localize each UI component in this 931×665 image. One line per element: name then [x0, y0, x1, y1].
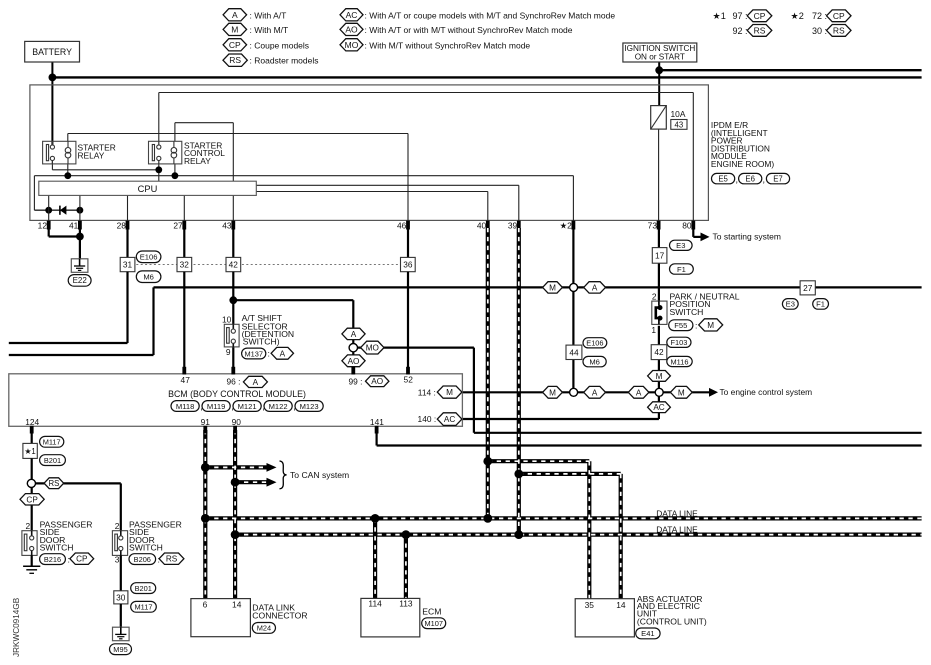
svg-text:E5: E5	[718, 174, 728, 183]
pin 39 stub	[517, 221, 521, 230]
node A/T selector branch	[229, 296, 237, 304]
relay STARTER CONTROL RELAY	[149, 141, 182, 164]
ECM box	[361, 598, 420, 637]
svg-text:CONNECTOR: CONNECTOR	[252, 610, 307, 620]
ground M95 symbol	[113, 627, 130, 641]
hexagon M above engine line	[648, 371, 671, 382]
wire CPU pin28 drop	[127, 195, 129, 220]
svg-text:27: 27	[173, 221, 183, 231]
wire M-line left segment	[9, 354, 154, 356]
CAN wire ABS35 column dash	[588, 461, 590, 599]
A/T shift selector detention switch	[224, 324, 239, 347]
svg-text:E22: E22	[73, 276, 88, 285]
svg-text:35: 35	[585, 600, 595, 610]
connector box 32	[177, 257, 192, 271]
svg-text:73: 73	[648, 221, 658, 231]
node CAN junction 40-dataline1	[483, 514, 492, 523]
svg-text:9: 9	[226, 347, 231, 357]
node CAN junction BCM91-arrow	[201, 463, 210, 472]
connector box 27 on y287	[800, 281, 815, 295]
hexagon M engine line 1	[543, 386, 563, 398]
BCM top pin ticks	[182, 367, 186, 375]
ABS actuator box	[575, 599, 634, 637]
svg-text:M6: M6	[589, 357, 600, 366]
svg-text:RS: RS	[166, 555, 178, 564]
svg-text:SWITCH): SWITCH)	[243, 336, 280, 346]
pin *2 stub	[572, 221, 576, 230]
node CAN junction ECM113	[402, 530, 411, 539]
svg-text:A: A	[636, 388, 642, 397]
wire CPU pin27 drop	[183, 195, 185, 220]
hexagon CP branch	[20, 494, 44, 505]
passenger side door switch 2	[112, 531, 127, 556]
svg-text:AC: AC	[653, 403, 664, 412]
connector E106 label right	[583, 338, 607, 348]
CAN arrow line 2 base	[235, 480, 267, 484]
svg-text:AO: AO	[348, 357, 360, 366]
svg-text:2: 2	[652, 292, 657, 302]
connector box 44	[566, 345, 582, 359]
svg-text::: :	[268, 349, 270, 359]
svg-text:A: A	[592, 388, 598, 397]
connector M107 label	[422, 618, 446, 629]
connector box 30	[114, 591, 128, 604]
svg-text:F1: F1	[816, 300, 825, 309]
svg-text:RS: RS	[833, 25, 845, 35]
connector M117 label	[40, 436, 64, 447]
wire pin73 to connector 17 and PNP switch	[658, 229, 660, 301]
CAN wire IPDM40 column dash	[487, 228, 489, 518]
svg-text:E41: E41	[641, 629, 655, 638]
wire pin41 to ground	[79, 229, 81, 259]
connector M95 label	[110, 644, 132, 655]
svg-text:14: 14	[616, 600, 626, 610]
wire connector 30 to ground M95	[120, 604, 122, 628]
svg-text:6: 6	[203, 599, 208, 609]
svg-text:M121: M121	[238, 402, 257, 411]
CAN arrow line 1 base	[205, 465, 267, 469]
connector M24 label	[252, 623, 275, 634]
wire pin43 chain to BCM 96	[232, 272, 234, 329]
svg-text:M119: M119	[207, 402, 225, 411]
legend hexagon CP	[223, 39, 247, 51]
svg-text:RS: RS	[229, 55, 241, 65]
connector F1 label below 27	[813, 299, 829, 310]
svg-text:,: ,	[763, 175, 766, 185]
CAN wire ABS14 column base	[619, 474, 623, 599]
harness dotted line	[128, 264, 408, 266]
svg-text:3: 3	[115, 555, 120, 565]
wire M/A line y287	[154, 286, 922, 288]
svg-text:M118: M118	[176, 402, 194, 411]
svg-text:114 :: 114 :	[418, 388, 436, 398]
CAN wire DATA LINE 1 base	[205, 516, 921, 520]
wire CPU pin12 drop	[48, 195, 50, 220]
svg-text:DATA LINE: DATA LINE	[656, 509, 698, 519]
node pin41 join	[76, 233, 84, 241]
svg-text:AC: AC	[346, 10, 358, 20]
wire diode line	[34, 209, 80, 211]
connector box 42 lower	[651, 345, 667, 360]
data link connector box	[191, 599, 251, 637]
pin 73 stub	[657, 221, 661, 230]
svg-text:72 :: 72 :	[812, 11, 827, 21]
CAN wire ECM114 column dash	[374, 518, 376, 598]
svg-text:To starting system: To starting system	[713, 231, 782, 241]
svg-text:E106: E106	[140, 253, 158, 262]
legend hexagon A	[223, 9, 247, 21]
legend hexagon MO	[340, 39, 363, 51]
wire circle to CP hexagon and door switch	[31, 488, 33, 531]
hexagon M on y287	[543, 282, 563, 293]
node CAN junction 90-dataline2	[231, 530, 240, 539]
wire pin star2 chain down	[572, 229, 574, 345]
CAN arrow line 1 dash	[205, 466, 267, 468]
wire PNP switch to BCM140 riser	[658, 326, 660, 419]
svg-text:M: M	[446, 388, 453, 397]
svg-text:92 :: 92 :	[732, 26, 747, 36]
CAN wire ABS35 column base	[587, 461, 591, 599]
legend hexagon M	[223, 23, 247, 35]
fuse box star1	[23, 443, 37, 458]
connector E7	[766, 173, 789, 183]
wire A to AO through circle	[352, 339, 354, 374]
arrow to engine control system	[709, 388, 718, 397]
wire pin28 to connector 31	[126, 229, 128, 257]
connector M117 label 2	[131, 601, 157, 612]
hexagon AO below circle	[342, 355, 365, 367]
svg-text:: Roadster models: : Roadster models	[250, 56, 319, 66]
node ignition-bus junction	[655, 66, 663, 74]
svg-text:ENGINE ROOM): ENGINE ROOM)	[711, 159, 774, 169]
node diode-pin12 junction	[45, 207, 52, 214]
arrow to starting system	[701, 233, 710, 242]
hexagon AC below engine line	[648, 402, 671, 413]
svg-text:: With A/T or with M/T without: : With A/T or with M/T without SynchroRe…	[365, 25, 573, 35]
BCM bottom pin ticks	[30, 426, 34, 434]
CAN wire ECM114 column base	[373, 518, 377, 598]
arrow to CAN system 2	[267, 478, 277, 487]
svg-text:91: 91	[201, 417, 211, 427]
CAN wire DATA LINE 2 dash	[235, 534, 922, 536]
CAN wire BCM91 column to DLC dash	[204, 430, 206, 599]
wire branch to A/AO hexagons	[233, 299, 353, 301]
svg-text:CP: CP	[754, 11, 766, 21]
svg-text:42: 42	[654, 347, 664, 357]
svg-text:★1: ★1	[713, 11, 726, 21]
svg-text:A: A	[351, 330, 357, 339]
CAN wire IPDM40 column base	[486, 228, 490, 518]
svg-text:CP: CP	[76, 555, 88, 564]
svg-text:SWITCH: SWITCH	[40, 543, 74, 553]
svg-text:41: 41	[69, 221, 79, 231]
svg-text:27: 27	[803, 283, 813, 293]
svg-text:E106: E106	[586, 339, 603, 348]
wire battery feed bus	[52, 76, 921, 78]
wire relay contact common line into CPU	[51, 160, 53, 169]
pin 12 stub	[47, 221, 51, 230]
node open circle A/MO/AO	[349, 344, 357, 352]
svg-text:M24: M24	[257, 624, 271, 633]
switch IGNITION SWITCH ON or START	[623, 43, 697, 62]
hexagon A for M137	[271, 347, 293, 359]
svg-text:MO: MO	[345, 40, 359, 50]
svg-text:E3: E3	[786, 300, 795, 309]
passenger side door switch 1	[22, 531, 37, 556]
legend hexagon RS	[223, 54, 247, 66]
wire pin27 chain to BCM 47	[183, 272, 185, 374]
node open circle PNP/engine-line	[655, 388, 663, 396]
hexagon M engine line 2	[670, 386, 692, 398]
svg-text:B201: B201	[44, 456, 61, 465]
CAN wire branch to ABS14 base	[519, 472, 621, 476]
svg-text:44: 44	[569, 347, 579, 357]
wire MO branch	[357, 347, 474, 349]
svg-text:M: M	[549, 283, 556, 292]
wire pin46 chain to BCM 52	[407, 272, 409, 374]
wire CPU to pin39	[256, 184, 519, 186]
wire battery drop	[51, 61, 53, 146]
svg-text:12: 12	[38, 221, 48, 231]
svg-text:30: 30	[116, 592, 126, 602]
legend hexagon AC	[340, 9, 363, 21]
svg-text:AC: AC	[444, 415, 455, 424]
wire CPU pin41 drop	[79, 195, 81, 220]
svg-text:97 :: 97 :	[732, 11, 747, 21]
CAN wire DATA LINE 2 base	[235, 532, 922, 536]
wire engine-control line y392	[462, 391, 709, 393]
connector B201 label 2	[131, 583, 156, 594]
BCM box	[9, 374, 463, 427]
connector E3 label	[670, 240, 693, 250]
svg-text:MO: MO	[366, 344, 379, 353]
svg-text:M122: M122	[269, 402, 288, 411]
svg-text:: With A/T: : With A/T	[250, 10, 287, 20]
svg-text:40: 40	[477, 221, 487, 231]
hexagon A on y287	[584, 282, 606, 293]
diode D1	[60, 206, 67, 215]
svg-text:A: A	[253, 378, 259, 387]
svg-text:★2: ★2	[560, 221, 573, 231]
node CAN junction ECM114	[371, 514, 380, 523]
connector M6 label	[136, 271, 161, 283]
svg-text:CP: CP	[26, 495, 38, 504]
svg-text:140 :: 140 :	[418, 414, 437, 424]
svg-text:1: 1	[651, 325, 656, 335]
svg-text:17: 17	[655, 250, 665, 260]
CAN wire IPDM39 column dash	[518, 228, 520, 535]
CAN wire DATA LINE 1 dash	[205, 517, 921, 519]
svg-text:124: 124	[25, 417, 39, 427]
svg-text:JRKWC0914GB: JRKWC0914GB	[12, 597, 21, 657]
pin 27 stub	[182, 221, 186, 230]
wire star1 to circle	[31, 458, 33, 480]
svg-text:B201: B201	[135, 584, 152, 593]
brace To CAN system	[280, 461, 287, 489]
svg-text:M123: M123	[300, 402, 319, 411]
svg-text:A: A	[280, 349, 286, 358]
svg-text:M117: M117	[135, 603, 153, 612]
svg-text:: With M/T without SynchroRev: : With M/T without SynchroRev Match mode	[365, 40, 531, 50]
svg-text:36: 36	[403, 260, 413, 270]
svg-text:43: 43	[675, 120, 684, 129]
pin 46 stub	[406, 221, 410, 230]
CAN wire BCM90 column to DLC dash	[234, 430, 236, 599]
svg-text:M6: M6	[143, 273, 154, 282]
svg-text:A: A	[232, 10, 238, 20]
connector box 31	[120, 257, 135, 271]
svg-text:CPU: CPU	[138, 184, 158, 194]
svg-text:32: 32	[180, 260, 190, 270]
svg-text:E3: E3	[676, 241, 685, 250]
svg-text:,: ,	[736, 175, 739, 185]
svg-text:39: 39	[508, 221, 518, 231]
svg-text:30 :: 30 :	[812, 26, 827, 36]
connector box 42	[226, 257, 241, 271]
connector B201 label	[40, 455, 66, 466]
svg-text:: With M/T: : With M/T	[250, 25, 289, 35]
connector E5	[712, 173, 735, 183]
svg-text:F55: F55	[674, 321, 687, 330]
wire pin27 to connector 32	[183, 229, 185, 257]
node coil line junction 2	[172, 172, 179, 179]
connector M6 label right	[583, 356, 606, 366]
wire BCM124 down	[31, 432, 33, 443]
connector B216 label	[40, 554, 66, 565]
connector E22	[68, 275, 91, 287]
svg-text:ON or START: ON or START	[635, 53, 685, 62]
connector B206 label	[129, 554, 156, 565]
pin 40 stub	[486, 221, 490, 230]
svg-text:96 :: 96 :	[227, 376, 241, 386]
svg-text:(CONTROL UNIT): (CONTROL UNIT)	[637, 616, 707, 626]
svg-text:10: 10	[222, 315, 232, 325]
connector E41 label	[636, 628, 660, 639]
connector E3 label below 27	[782, 299, 798, 310]
svg-text:B206: B206	[134, 555, 151, 564]
svg-text:RELAY: RELAY	[78, 151, 105, 161]
node coil line junction 1	[64, 172, 71, 179]
arrow to CAN system 1	[267, 463, 277, 472]
svg-text:AO: AO	[345, 24, 358, 34]
CAN arrow line 2 dash	[235, 481, 267, 483]
svg-text:M137: M137	[244, 349, 263, 358]
CAN wire ECM113 column base	[404, 535, 408, 599]
svg-text:ECM: ECM	[422, 606, 441, 616]
node open circle star2/y287	[570, 283, 578, 291]
svg-text::: :	[68, 554, 70, 564]
CAN wire branch to ABS14 dash	[519, 473, 621, 475]
node open circle CP/RS split	[27, 479, 35, 487]
wire ignition drop	[658, 62, 660, 106]
svg-text:F1: F1	[677, 265, 686, 274]
connector M137 label	[242, 348, 266, 359]
node contact line junction	[155, 166, 162, 173]
wire starter-relay coil bottom	[67, 164, 69, 176]
svg-text:E7: E7	[773, 174, 783, 183]
CAN wire branch to ABS35 base	[488, 459, 590, 463]
hexagon MO right of circle	[361, 341, 384, 354]
wire pin43 to connector 42	[232, 229, 234, 257]
BCM connectors M118 M119 M121 M122 M123	[171, 401, 199, 412]
node CAN junction 40-branch	[483, 457, 492, 466]
svg-text:AO: AO	[371, 377, 383, 386]
wire pin46 to connector 36	[407, 229, 409, 257]
svg-text:141: 141	[370, 417, 384, 427]
hexagon RS for B206	[159, 553, 184, 564]
CAN wire IPDM39 column base	[517, 228, 521, 535]
CAN wire BCM91 column to DLC base	[203, 430, 207, 599]
legend hexagon AO	[340, 23, 363, 35]
svg-text:43: 43	[222, 221, 232, 231]
IPDM E/R box	[30, 85, 709, 221]
wire control-relay coil riser to pin43	[174, 123, 176, 142]
svg-text:114: 114	[368, 599, 382, 609]
svg-text:DATA LINE: DATA LINE	[656, 525, 698, 535]
CAN wire branch to ABS35 dash	[488, 460, 590, 462]
svg-text:SWITCH: SWITCH	[129, 543, 163, 553]
svg-text:99 :: 99 :	[349, 376, 363, 386]
node CAN junction 39-branch	[514, 470, 523, 479]
wire pin28 chain to left edge	[126, 272, 128, 343]
svg-text:47: 47	[181, 375, 191, 385]
hexagon RS branch	[44, 478, 64, 489]
svg-text::: :	[695, 320, 697, 330]
svg-text:113: 113	[399, 599, 413, 609]
svg-text:46: 46	[397, 221, 407, 231]
svg-text:E6: E6	[745, 174, 755, 183]
svg-text:2: 2	[26, 521, 31, 531]
ground earth symbol door switch 1	[23, 565, 40, 567]
svg-text:To engine control system: To engine control system	[720, 387, 813, 397]
node CAN junction 39-dataline2	[514, 530, 523, 539]
relay STARTER RELAY	[43, 141, 76, 164]
hexagon CP for B216	[70, 553, 94, 564]
svg-text:BATTERY: BATTERY	[32, 47, 72, 57]
svg-text:M: M	[656, 372, 663, 381]
wire BCM141 line	[376, 426, 378, 445]
connector F103 label	[667, 337, 691, 347]
battery BATTERY	[25, 41, 80, 62]
wire fuse to pin73	[658, 129, 660, 220]
wire pin12 to pin41 join	[48, 229, 50, 237]
svg-text:★2: ★2	[791, 11, 804, 21]
connector E106 label	[136, 251, 161, 263]
hexagon A above circle	[342, 328, 365, 339]
wire control-relay coil bottom	[174, 164, 176, 176]
pin 28 stub	[126, 221, 130, 230]
hexagon A engine line 1	[584, 386, 606, 398]
svg-text:M: M	[549, 388, 556, 397]
wire ignition bus	[659, 69, 921, 71]
connector E6	[739, 173, 762, 183]
svg-text:: With A/T or coupe models wit: : With A/T or coupe models with M/T and …	[365, 10, 616, 20]
wire CPU to pin40	[256, 191, 488, 193]
CAN wire ECM113 column dash	[405, 535, 407, 599]
CAN wire ABS14 column dash	[620, 474, 622, 599]
hexagon M for F55	[699, 319, 723, 331]
wire RS branch	[35, 482, 121, 484]
wire relay coil common line to pin star2	[33, 176, 35, 211]
svg-text:M: M	[678, 388, 685, 397]
svg-text:CP: CP	[833, 11, 845, 21]
svg-text:To CAN system: To CAN system	[290, 470, 349, 480]
fuse 10A 43	[651, 106, 667, 130]
svg-text:10A: 10A	[671, 109, 686, 119]
ground E22 symbol	[71, 259, 88, 273]
connector F55 label	[669, 320, 693, 331]
svg-text:M: M	[231, 24, 238, 34]
